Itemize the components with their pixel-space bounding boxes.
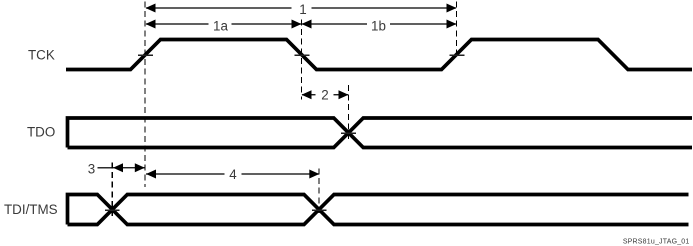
dashed line at TDO transition (node t4, x=348.5) — [348, 85, 350, 139]
measurement tick at TDO transition center — [341, 132, 356, 134]
svg-text:TDO: TDO — [27, 124, 55, 139]
dimension 3 leader line — [98, 167, 113, 169]
svg-text:1a: 1a — [213, 18, 228, 33]
dashed line at TCK falling edge 1 (node t2, x=301.5) — [301, 20, 303, 100]
TDI/TMS bus waveform upper strand with two crossings — [68, 195, 689, 225]
dimension 1 left arrowhead — [146, 4, 156, 13]
svg-text:TDI/TMS: TDI/TMS — [4, 202, 58, 217]
measurement tick at TCK rising edge 1 — [138, 54, 153, 56]
dimension 4 line (y=174) — [146, 173, 319, 175]
measurement tick at TCK falling edge 1 — [295, 54, 310, 56]
svg-text:TCK: TCK — [28, 47, 55, 62]
dimension 4 right arrowhead — [309, 170, 319, 179]
svg-text:1b: 1b — [371, 18, 386, 33]
dimension 3 left arrowhead — [113, 163, 123, 172]
dimension 1a left arrowhead — [146, 20, 156, 29]
TDO bus waveform upper-left to lower-right strand — [68, 118, 693, 148]
dimension 1a right arrowhead — [292, 20, 302, 29]
svg-text:2: 2 — [321, 88, 328, 103]
TDI/TMS bus waveform lower strand with two crossings — [68, 195, 689, 225]
svg-text:3: 3 — [88, 161, 95, 176]
measurement tick at TDI/TMS transition 2 center — [312, 209, 327, 211]
dashed line at TDI/TMS transition 1 (node t5, x=111.5) — [111, 163, 113, 217]
TDO bus waveform lower-left to upper-right strand — [68, 118, 693, 148]
dimension 3 line (y=167.5) — [112, 167, 145, 169]
dimension 2 line (y=94.5) — [302, 94, 348, 96]
measurement tick at TCK rising edge 2 — [450, 54, 465, 56]
dimension 3 right arrowhead — [135, 163, 145, 172]
dimension 2 right arrowhead — [339, 90, 349, 99]
dimension 1b line (y=23.5) — [302, 23, 456, 25]
dimension 1a line (y=23.5) — [146, 23, 301, 25]
svg-text:4: 4 — [229, 167, 237, 182]
dimension 2 left arrowhead — [302, 90, 312, 99]
TCK clock waveform — [66, 40, 692, 70]
svg-text:SPRS81u_JTAG_01: SPRS81u_JTAG_01 — [623, 239, 690, 246]
dimension 4 left arrowhead — [146, 170, 156, 179]
dashed line at TCK rising edge 2 (node t3, x=456.5) — [456, 2, 458, 58]
svg-text:1: 1 — [299, 2, 306, 17]
dashed line at TDI/TMS transition 2 (node t6, x=319) — [318, 169, 320, 217]
dimension 1b right arrowhead — [447, 20, 457, 29]
dimension 1 right arrowhead — [447, 4, 457, 13]
measurement tick at TDI/TMS transition 1 center — [105, 209, 120, 211]
dimension 1 line (TCK period, y=8) — [146, 7, 456, 9]
dimension 1b left arrowhead — [302, 20, 312, 29]
dashed line at TCK rising edge 1 (node t1, x=145) — [144, 2, 146, 188]
